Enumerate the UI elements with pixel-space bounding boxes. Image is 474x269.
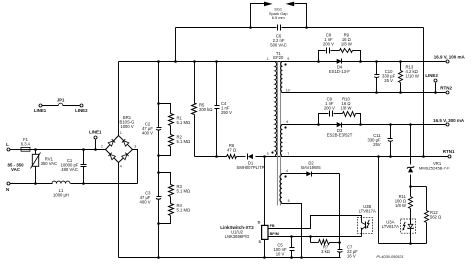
svg-text:LTV817A: LTV817A xyxy=(382,224,399,229)
capacitor C7 22 uF 16 V xyxy=(339,243,341,250)
svg-text:FB: FB xyxy=(270,224,275,228)
svg-text:200 V: 200 V xyxy=(324,106,335,111)
transformer primary winding pins 1-3 xyxy=(275,62,277,155)
optocoupler U3B LTV817A xyxy=(357,217,372,233)
wire L to bridge xyxy=(31,149,106,151)
wire drain xyxy=(264,157,266,226)
svg-text:10: 10 xyxy=(286,89,290,93)
svg-text:400 V: 400 V xyxy=(140,200,151,205)
diode D2 BAV19WS xyxy=(282,173,307,175)
resistor R11 100 Ohm 1/8 W xyxy=(409,185,412,188)
svg-text:350 VAC: 350 VAC xyxy=(41,161,57,166)
svg-text:1/8 W: 1/8 W xyxy=(341,106,352,111)
svg-text:3: 3 xyxy=(134,145,136,149)
inductor L1 1000 uH xyxy=(52,181,70,183)
wire GND rail xyxy=(119,257,341,259)
resistor R12 562 Ohm xyxy=(411,186,427,188)
wire FB xyxy=(269,216,362,229)
diode D4 ES1D-13-F xyxy=(337,59,342,64)
wire Y-cap return xyxy=(423,28,425,157)
wire source xyxy=(264,240,266,258)
svg-text:6: 6 xyxy=(286,120,288,124)
svg-text:5.1 MΩ: 5.1 MΩ xyxy=(177,208,191,213)
bridge rectifier BR1 B10S-G 1000 V xyxy=(106,136,119,150)
svg-text:10 V: 10 V xyxy=(276,251,285,256)
wire Y-cap row xyxy=(174,60,177,63)
svg-text:PI-4039-050521: PI-4039-050521 xyxy=(376,255,403,259)
resistor R4 5.1 MOhm xyxy=(170,197,172,204)
wire RTN1 to LED return xyxy=(377,155,380,158)
wire N input xyxy=(10,183,53,185)
svg-text:RTN1: RTN1 xyxy=(443,149,455,154)
polarity dot secondary 1 xyxy=(284,63,286,65)
svg-text:1000 V: 1000 V xyxy=(120,124,133,129)
svg-text:5.1 MΩ: 5.1 MΩ xyxy=(177,189,191,194)
transformer secondary winding pins 6-7 xyxy=(281,125,282,155)
wire bias pin5 to gnd xyxy=(282,204,302,258)
svg-text:JP1: JP1 xyxy=(57,97,65,102)
svg-text:7: 7 xyxy=(287,152,289,156)
op U1 LinkSwitch-XT2 LNK3696P/G xyxy=(262,225,268,239)
optocoupler U3A LTV817A xyxy=(401,219,416,233)
resistor R10 16 Ohm 1/8 W xyxy=(343,112,356,117)
wire L input xyxy=(10,149,22,151)
svg-text:16 V: 16 V xyxy=(347,253,356,258)
wire opto LED return xyxy=(409,242,412,245)
capacitor C6 2.2 nF 500 VAC xyxy=(277,25,279,31)
resistor R3 5.1 MOhm xyxy=(157,171,160,174)
svg-text:D: D xyxy=(258,221,261,225)
resistor R7 3 kOhm xyxy=(309,235,312,238)
wire bulk spine xyxy=(157,60,160,63)
svg-text:47 Ω: 47 Ω xyxy=(227,147,236,152)
svg-text:LINE2: LINE2 xyxy=(75,108,88,113)
resistor R2 5.1 MOhm xyxy=(170,126,172,135)
diode D1 SMH007PL/TP xyxy=(248,154,253,159)
resistor R1 5.1 MOhm xyxy=(157,102,160,105)
svg-text:5.1 MΩ: 5.1 MΩ xyxy=(177,139,191,144)
resistor R9 16 Ohm 1/8 W xyxy=(340,49,353,53)
svg-text:200 V: 200 V xyxy=(323,42,334,47)
wire D2 to bias node xyxy=(339,174,341,243)
svg-text:BP/M: BP/M xyxy=(270,232,279,236)
capacitor C11 330 uF 25 V xyxy=(389,123,392,126)
svg-text:562 Ω: 562 Ω xyxy=(430,214,441,219)
wire DC+ bus xyxy=(119,61,446,63)
wire D1 to primary pin 3 xyxy=(256,156,283,158)
polarity dot bias xyxy=(284,175,286,177)
svg-text:LINE1: LINE1 xyxy=(34,108,47,113)
svg-text:LINE1: LINE1 xyxy=(89,129,102,134)
wire R6 to D1 xyxy=(237,156,246,158)
svg-text:1: 1 xyxy=(267,57,269,61)
diode D3 ES2B-E3/52T xyxy=(337,122,342,127)
spark gap SG1 6.5 mm xyxy=(249,26,252,29)
svg-text:ES2B-E3/52T: ES2B-E3/52T xyxy=(327,133,353,138)
wire N up to bridge xyxy=(133,150,138,184)
capacitor C5 100 nF 10 V xyxy=(290,235,293,238)
svg-text:5.1 MΩ: 5.1 MΩ xyxy=(177,120,191,125)
resistor R5 200 kOhm xyxy=(193,60,196,63)
svg-text:RTN2: RTN2 xyxy=(440,86,452,91)
wire RTN2 rail xyxy=(282,92,446,94)
wire clamp row xyxy=(195,156,227,158)
svg-text:1/8 W: 1/8 W xyxy=(395,203,406,208)
transformer secondary winding pins 9-10 xyxy=(281,62,282,91)
svg-text:16.9 V, 100 mA: 16.9 V, 100 mA xyxy=(434,55,466,60)
svg-text:LINE2: LINE2 xyxy=(425,73,438,78)
resistor R6 47 Ohm xyxy=(227,155,237,159)
capacitor C2 47 uF 400 V xyxy=(157,127,162,129)
polarity dot secondary 2 xyxy=(284,126,286,128)
svg-text:2: 2 xyxy=(101,145,103,149)
svg-text:480 VAC: 480 VAC xyxy=(61,167,77,172)
svg-text:250 V: 250 V xyxy=(221,110,232,115)
capacitor C3 47 uF 400 V xyxy=(157,196,162,198)
svg-text:4: 4 xyxy=(286,169,288,173)
wire BP/M xyxy=(269,236,362,238)
svg-text:25V: 25V xyxy=(373,142,381,147)
transformer T1 EF20 core xyxy=(277,62,279,206)
zener VR1 MMSZ5245B-7-F xyxy=(409,123,412,126)
fuse F1 6.3 A xyxy=(21,147,30,151)
snubber C8 1 nF 200 V xyxy=(317,60,320,63)
wire RTN1 rail xyxy=(282,156,449,158)
svg-text:MMSZ5245B-7-F: MMSZ5245B-7-F xyxy=(419,166,450,171)
svg-text:400 V: 400 V xyxy=(142,130,153,135)
svg-text:LTV817A: LTV817A xyxy=(359,208,376,213)
svg-text:4: 4 xyxy=(120,165,122,169)
svg-text:16.5 V, 300 mA: 16.5 V, 300 mA xyxy=(433,118,465,123)
svg-text:1/10 W: 1/10 W xyxy=(406,73,419,78)
svg-text:25 V: 25 V xyxy=(384,78,393,83)
svg-text:3 kΩ: 3 kΩ xyxy=(321,249,330,254)
svg-text:L: L xyxy=(6,142,9,147)
svg-text:LNK3696P/G: LNK3696P/G xyxy=(225,234,250,239)
wire 16.5V rail xyxy=(282,124,446,126)
svg-text:SMH007PL/TP: SMH007PL/TP xyxy=(237,165,265,170)
varistor RV1 350 VAC xyxy=(34,148,37,151)
svg-text:200 kΩ: 200 kΩ xyxy=(199,107,212,112)
capacitor C1 10000 pF 480 VAC xyxy=(82,148,85,151)
capacitor C10 330 uF 25 V xyxy=(375,60,378,63)
snubber C9 1 nF 200 V xyxy=(317,123,320,126)
svg-text:VAC: VAC xyxy=(11,167,21,172)
wire bridge- down xyxy=(118,163,120,258)
svg-text:6.3 A: 6.3 A xyxy=(21,141,31,146)
polarity dot primary xyxy=(271,151,273,153)
wire bridge+ to bus xyxy=(118,62,120,136)
svg-text:1: 1 xyxy=(120,131,122,135)
wire N to bridge xyxy=(71,183,138,185)
svg-text:9: 9 xyxy=(287,57,289,61)
transformer bias winding pins 4-5 xyxy=(280,175,282,202)
svg-text:5: 5 xyxy=(288,199,290,203)
svg-text:ES1D-13-F: ES1D-13-F xyxy=(329,69,350,74)
svg-text:1/8 W: 1/8 W xyxy=(341,42,352,47)
svg-text:3: 3 xyxy=(267,152,269,156)
svg-text:EF20: EF20 xyxy=(273,55,284,60)
capacitor C4 1 nF 250 V xyxy=(215,60,218,63)
svg-text:BAV19WS: BAV19WS xyxy=(301,165,321,170)
svg-text:1000 µH: 1000 µH xyxy=(53,192,69,197)
resistor R13 4.2 kOhm 1/10 W xyxy=(399,60,402,63)
svg-text:6.5 mm: 6.5 mm xyxy=(272,15,285,20)
svg-text:500 VAC: 500 VAC xyxy=(270,42,286,47)
